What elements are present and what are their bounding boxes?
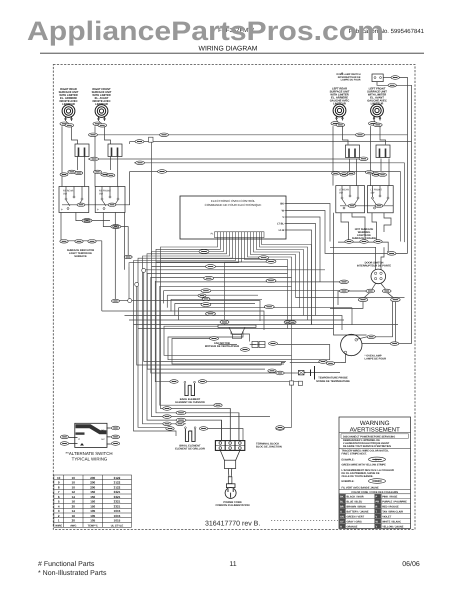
central bundle ovals (198, 250, 349, 324)
central horizontal wire bundle (129, 142, 270, 440)
svg-text:LIMITEUR: LIMITEUR (95, 103, 108, 106)
label power cord (216, 501, 250, 507)
svg-text:GRAY / GRIS: GRAY / GRIS (347, 521, 362, 524)
title underline (40, 52, 424, 54)
svg-text:COLOR CODE / CODE DES COULEURS: COLOR CODE / CODE DES COULEURS (351, 491, 398, 494)
svg-text:EXEMPLE:: EXEMPLE: (342, 480, 355, 483)
surface switch left rear box (336, 186, 365, 213)
dotted separator line (271, 520, 338, 522)
limiter box RF (108, 144, 122, 157)
label right front surface unit (92, 88, 112, 106)
fan motor loop wires (164, 324, 330, 364)
svg-text:3122: 3122 (114, 476, 121, 480)
svg-text:1015: 1015 (114, 519, 121, 523)
limiter box LF (376, 145, 390, 158)
door switch circle (371, 269, 386, 284)
connector pair under LF unit (368, 122, 382, 127)
long mid horizontals right (296, 298, 405, 331)
svg-text:VIOLET: VIOLET (382, 516, 392, 519)
svg-text:BLACK / NOIR: BLACK / NOIR (347, 496, 364, 499)
svg-text:316417770 rev B.: 316417770 rev B. (205, 521, 260, 528)
svg-text:BL: BL (340, 501, 344, 504)
svg-text:TAN / BRN CLAIR: TAN / BRN CLAIR (382, 511, 403, 514)
bake element connectors (170, 380, 207, 384)
wires below left switches (61, 172, 130, 312)
limiter box LR (346, 145, 360, 158)
wires right burner group (333, 121, 389, 186)
svg-text:06/06: 06/06 (402, 560, 420, 568)
svg-text:WIRE: WIRE (55, 524, 62, 527)
svg-text:BLUE / BLEU: BLUE / BLEU (347, 501, 363, 504)
power cord top wires (222, 409, 239, 441)
right vertical bus wires (401, 163, 405, 242)
warning example connector ovals (369, 457, 386, 483)
svg-text:SONDE DE TEMPERATURE: SONDE DE TEMPERATURE (316, 380, 350, 383)
svg-text:ORANGE: ORANGE (347, 525, 358, 528)
connector pair right of oven light switch (388, 76, 399, 87)
surface unit left front (coil symbol) (371, 104, 384, 120)
svg-text:UL STYLE: UL STYLE (111, 524, 124, 527)
svg-text:ELEMENT DE CUISSON: ELEMENT DE CUISSON (175, 401, 204, 404)
EOC connector strip P1 (211, 232, 264, 238)
EOC right side exit wires (286, 204, 387, 325)
label oven light switch (336, 73, 361, 82)
hot surface lights connectors (345, 240, 382, 244)
svg-text:14: 14 (72, 495, 76, 499)
svg-text:11: 11 (229, 561, 236, 568)
oven light switch box top right (372, 74, 383, 82)
surface switch left front box (368, 186, 394, 213)
svg-text:# Functional Parts: # Functional Parts (38, 560, 95, 568)
power cord strain relief (220, 450, 240, 483)
svg-text:CELLE DE TOUTE BANDE.: CELLE DE TOUTE BANDE. (342, 475, 374, 478)
oven lamp extra ovals (268, 360, 335, 375)
svg-text:G-Y: G-Y (375, 458, 380, 461)
oven lamp connectors (367, 335, 399, 345)
surface indicator connectors (60, 240, 96, 244)
bus connector ovals (89, 133, 369, 173)
wires below right switches (334, 186, 408, 335)
svg-text:10: 10 (72, 485, 76, 489)
svg-text:PR: PR (376, 501, 380, 504)
broil element connectors (166, 427, 284, 431)
label alternate switch (65, 451, 112, 462)
connector pair under RR unit (60, 122, 74, 127)
wires left burner group (62, 121, 118, 187)
svg-text:20: 20 (72, 519, 76, 523)
svg-text:AppliancePartsPros.com: AppliancePartsPros.com (27, 16, 384, 46)
svg-text:105: 105 (90, 519, 95, 523)
svg-text:BK: BK (340, 496, 344, 499)
svg-text:TYPICAL WIRING: TYPICAL WIRING (72, 457, 108, 462)
svg-text:16: 16 (72, 514, 76, 518)
svg-text:16: 16 (72, 500, 76, 504)
connector ovals under limiters (60, 170, 115, 177)
svg-text:3122: 3122 (114, 481, 121, 485)
svg-text:LT BL: LT BL (277, 223, 284, 226)
label door switch (357, 261, 392, 267)
EOC fanout comb left (129, 238, 239, 267)
svg-text:BR: BR (340, 506, 344, 509)
EOC right pin labels (277, 203, 286, 233)
svg-text:SURFACE: SURFACE (74, 255, 87, 258)
svg-text:12: 12 (72, 490, 76, 494)
svg-text:1015: 1015 (114, 514, 121, 518)
svg-text:DISCONNECT POWER BEFORE SERVIC: DISCONNECT POWER BEFORE SERVICING (343, 435, 395, 438)
svg-text:COMMANDE DE FOUR ELECTRONIQUE: COMMANDE DE FOUR ELECTRONIQUE (205, 203, 262, 207)
svg-text:GY: GY (340, 521, 344, 524)
svg-text:GREEN / VERT: GREEN / VERT (347, 516, 365, 519)
svg-text:105: 105 (90, 509, 95, 513)
svg-text:BATTERY / JAUNE: BATTERY / JAUNE (347, 511, 369, 514)
connector pair under RF unit (93, 122, 107, 127)
color code table (339, 494, 411, 529)
svg-text:LIMITEUR: LIMITEUR (371, 103, 384, 106)
svg-text:FIRST, STRIPE NEXT.: FIRST, STRIPE NEXT. (342, 453, 367, 456)
color code letter cells shading (339, 494, 381, 528)
electronic oven control box (180, 196, 286, 239)
svg-text:150: 150 (90, 500, 95, 504)
svg-text:200: 200 (90, 476, 95, 480)
surface unit left rear (coil symbol) (333, 104, 346, 120)
warning box (339, 417, 411, 529)
svg-text:10: 10 (57, 476, 61, 480)
svg-text:WIRING DIAGRAM: WIRING DIAGRAM (199, 46, 258, 53)
svg-text:3321: 3321 (114, 495, 121, 499)
svg-text:WARNING: WARNING (360, 420, 390, 427)
broil element (185, 427, 197, 442)
label terminal block (256, 443, 282, 449)
svg-text:RED / ROUGE: RED / ROUGE (382, 506, 399, 509)
svg-text:3122: 3122 (114, 485, 121, 489)
svg-text:3321: 3321 (114, 490, 121, 494)
convection fan motor (210, 320, 278, 351)
bake element (184, 381, 195, 395)
svg-text:L1 B: L1 B (279, 229, 285, 232)
central bundle horizontals mid (102, 270, 298, 405)
broil row wires (208, 420, 292, 441)
door switch connectors (358, 252, 400, 302)
svg-text:WHITE / BLANC: WHITE / BLANC (382, 521, 401, 524)
surface switch right front box (95, 187, 125, 213)
svg-text:BROWN / BRUN: BROWN / BRUN (347, 506, 366, 509)
svg-text:GREEN WIRE WITH YELLOW STRIPE: GREEN WIRE WITH YELLOW STRIPE (342, 464, 387, 467)
svg-text:3321: 3321 (114, 500, 121, 504)
svg-text:PURPLE / POURPRE: PURPLE / POURPRE (382, 501, 407, 504)
svg-text:* Non-Illustrated Parts: * Non-Illustrated Parts (38, 569, 107, 577)
svg-text:INTERRUPTEUR DE PORTE: INTERRUPTEUR DE PORTE (357, 265, 392, 268)
oven light switch wires (377, 78, 412, 344)
label oven lamp (365, 355, 387, 361)
svg-text:LAMPE DE FOUR: LAMPE DE FOUR (365, 358, 387, 361)
svg-text:MOTEUR DE VENTILATEUR: MOTEUR DE VENTILATEUR (205, 345, 239, 348)
svg-text:AWG: AWG (70, 524, 76, 527)
svg-text:BK: BK (280, 203, 284, 206)
svg-text:O: O (340, 525, 342, 528)
svg-text:3321: 3321 (114, 504, 121, 508)
svg-text:CORDON D'ALIMENTATION: CORDON D'ALIMENTATION (216, 504, 250, 507)
warning title (350, 420, 400, 433)
connector pair under LR unit (331, 122, 345, 127)
door switch top wires (330, 247, 395, 341)
junction nodes (112, 268, 146, 302)
connector ovals under right limiters (332, 171, 387, 177)
svg-text:FIL VERT AVEC BANDE JAUNE: FIL VERT AVEC BANDE JAUNE (342, 486, 380, 489)
label surface indicator light (67, 249, 94, 258)
svg-text:LIMITEUR: LIMITEUR (62, 103, 75, 106)
svg-text:200: 200 (90, 485, 95, 489)
alternate switch connectors (60, 426, 119, 445)
central bundle long horizontals (125, 259, 351, 329)
svg-text:150: 150 (90, 495, 95, 499)
svg-text:R: R (376, 506, 378, 509)
svg-text:ELEMENT DE GRILLOIR: ELEMENT DE GRILLOIR (175, 448, 205, 451)
label broil element (175, 445, 205, 451)
surface unit right rear (coil symbol) (62, 105, 75, 121)
EOC fanout comb right (225, 238, 312, 428)
power cord plug (225, 484, 236, 499)
svg-text:1015: 1015 (114, 509, 121, 513)
label hot surface warning lights (352, 228, 376, 240)
svg-text:105: 105 (90, 514, 95, 518)
surface switch right rear box (59, 187, 89, 213)
junction square node (149, 137, 153, 142)
bake circuit junction (289, 381, 293, 385)
svg-text:LIMITEUR: LIMITEUR (333, 103, 346, 106)
label temperature probe (316, 377, 350, 383)
svg-text:YELLOW / JAUNE: YELLOW / JAUNE (382, 525, 404, 528)
svg-text:20: 20 (72, 504, 76, 508)
diagram border frame (53, 65, 415, 530)
svg-text:GN: GN (340, 516, 344, 519)
svg-text:150: 150 (90, 504, 95, 508)
svg-text:10: 10 (72, 481, 76, 485)
wire gauge table (54, 475, 132, 527)
oven lamp feed wires (341, 302, 412, 363)
limiter box RR (75, 144, 89, 157)
warning text (342, 435, 399, 494)
label left rear surface unit (330, 88, 350, 106)
svg-text:AVERTISSEMENT: AVERTISSEMENT (350, 427, 400, 434)
svg-text:14: 14 (72, 509, 76, 513)
svg-text:EXAMPLE:: EXAMPLE: (342, 458, 355, 461)
svg-text:DE FAIRE TOUT SERVICE D'ENTRET: DE FAIRE TOUT SERVICE D'ENTRETIEN (343, 445, 391, 448)
label left front surface unit (367, 88, 387, 106)
broil and lower rows ovals (163, 403, 284, 429)
svg-text:BLOC DE JONCTION: BLOC DE JONCTION (256, 446, 282, 449)
connector ovals below left switches (82, 219, 132, 259)
svg-text:LAMPE DU FOUR: LAMPE DU FOUR (341, 79, 361, 82)
label right rear surface unit (59, 88, 79, 106)
terminal block (215, 441, 244, 451)
svg-text:200: 200 (90, 481, 95, 485)
oven lamp circle (341, 334, 362, 355)
svg-text:TEMP°C: TEMP°C (88, 524, 98, 527)
surface unit right front (coil symbol) (95, 105, 108, 121)
svg-text:10: 10 (72, 476, 76, 480)
svg-text:150: 150 (90, 490, 95, 494)
svg-text:**ALTERNATE SWITCH: **ALTERNATE SWITCH (65, 451, 112, 456)
svg-text:G: G (340, 511, 342, 514)
label bake element (175, 398, 204, 404)
alternate switch box (69, 423, 111, 447)
temperature probe (298, 366, 340, 380)
wire bus horizontal top (88, 135, 412, 172)
temp probe wires (281, 363, 341, 374)
svg-text:PINK / ROSE: PINK / ROSE (382, 496, 397, 499)
label fan motor (205, 342, 239, 348)
